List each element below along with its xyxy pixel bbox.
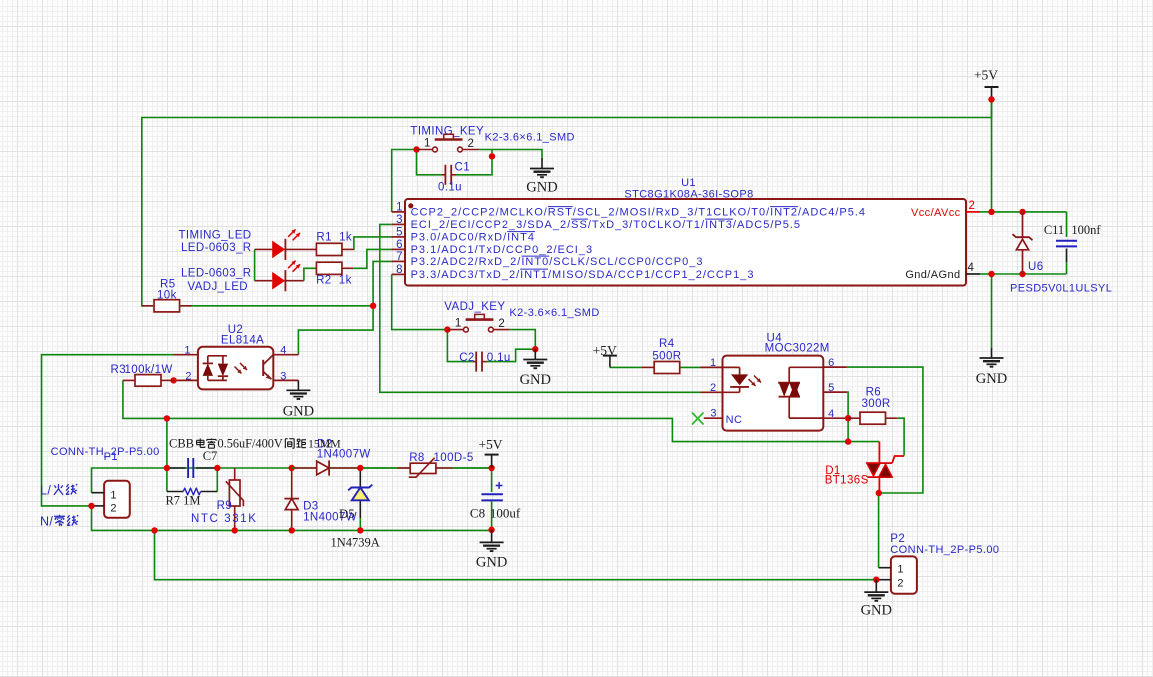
svg-text:NTC 331K: NTC 331K xyxy=(191,513,258,525)
svg-text:6: 6 xyxy=(828,357,834,369)
svg-text:EL814A: EL814A xyxy=(221,335,264,347)
svg-text:5: 5 xyxy=(828,382,834,394)
svg-text:MOC3022M: MOC3022M xyxy=(765,343,830,355)
svg-text:U6: U6 xyxy=(1028,261,1044,273)
svg-text:VADJ_KEY: VADJ_KEY xyxy=(444,301,505,313)
svg-text:4: 4 xyxy=(968,262,975,274)
svg-text:NC: NC xyxy=(726,414,743,426)
svg-text:6: 6 xyxy=(396,239,402,251)
svg-text:P3.3/ADC3/TxD_2/INT1/MISO/SDA/: P3.3/ADC3/TxD_2/INT1/MISO/SDA/CCP1/CCP1_… xyxy=(411,269,755,281)
svg-text:2: 2 xyxy=(710,382,716,394)
svg-text:C2: C2 xyxy=(459,352,475,364)
svg-text:P3.1/ADC1/TxD/CCP0_2/ECI_3: P3.1/ADC1/TxD/CCP0_2/ECI_3 xyxy=(411,244,594,256)
svg-text:3: 3 xyxy=(710,407,716,419)
svg-text:N/: N/ xyxy=(40,515,53,529)
svg-text:15MM: 15MM xyxy=(308,437,341,451)
svg-text:C11: C11 xyxy=(1044,223,1064,237)
svg-text:D5: D5 xyxy=(339,507,355,521)
svg-text:1: 1 xyxy=(424,138,430,150)
svg-text:2: 2 xyxy=(468,138,474,150)
svg-text:R8: R8 xyxy=(409,452,425,464)
svg-text:GND: GND xyxy=(976,371,1007,387)
svg-text:1: 1 xyxy=(455,318,461,330)
svg-text:C1: C1 xyxy=(455,162,471,174)
svg-text:GND: GND xyxy=(861,603,892,619)
svg-text:1: 1 xyxy=(184,345,190,357)
svg-text:2: 2 xyxy=(897,577,903,589)
svg-text:2: 2 xyxy=(498,318,504,330)
svg-text:100D-5: 100D-5 xyxy=(434,452,474,464)
svg-text:TIMING_LED: TIMING_LED xyxy=(178,230,251,242)
svg-text:R1 1k: R1 1k xyxy=(316,232,352,244)
svg-text:BT136S: BT136S xyxy=(825,475,869,487)
svg-text:TIMING_KEY: TIMING_KEY xyxy=(410,126,484,138)
svg-text:P2: P2 xyxy=(890,533,905,545)
svg-text:8: 8 xyxy=(396,264,402,276)
svg-text:GND: GND xyxy=(520,372,551,388)
svg-text:0.56uF/400V: 0.56uF/400V xyxy=(218,437,283,451)
svg-text:C7: C7 xyxy=(203,449,218,463)
svg-text:2: 2 xyxy=(110,503,116,515)
svg-text:P3.2/ADC2/RxD_2/INT0/SCLK/SCL/: P3.2/ADC2/RxD_2/INT0/SCLK/SCL/CCP0/CCP0_… xyxy=(411,256,704,268)
svg-text:CBB: CBB xyxy=(169,437,194,451)
svg-text:1: 1 xyxy=(897,564,903,576)
svg-text:K2-3.6×6.1_SMD: K2-3.6×6.1_SMD xyxy=(509,307,599,319)
svg-text:PESD5V0L1ULSYL: PESD5V0L1ULSYL xyxy=(1010,283,1112,295)
svg-text:GND: GND xyxy=(476,554,507,570)
svg-text:K2-3.6×6.1_SMD: K2-3.6×6.1_SMD xyxy=(485,131,575,143)
svg-text:GND: GND xyxy=(283,403,314,419)
svg-text:4: 4 xyxy=(828,408,834,420)
svg-text:300R: 300R xyxy=(862,398,891,410)
svg-text:CCP2_2/CCP2/MCLKO/RST/SCL_2/MO: CCP2_2/CCP2/MCLKO/RST/SCL_2/MOSI/RxD_3/T… xyxy=(411,207,866,219)
svg-text:5: 5 xyxy=(396,226,402,238)
svg-text:3: 3 xyxy=(280,371,286,383)
svg-text:0.1u: 0.1u xyxy=(438,182,462,194)
svg-text:+5V: +5V xyxy=(478,437,502,452)
svg-text:L/: L/ xyxy=(40,484,51,498)
svg-text:Gnd/AGnd: Gnd/AGnd xyxy=(905,269,960,281)
svg-text:1N4739A: 1N4739A xyxy=(331,536,380,550)
svg-text:P3.0/ADC0/RxD/INT4: P3.0/ADC0/RxD/INT4 xyxy=(411,232,535,244)
svg-text:LED-0603_R: LED-0603_R xyxy=(181,242,251,254)
svg-text:2: 2 xyxy=(969,200,975,212)
svg-text:4: 4 xyxy=(280,345,286,357)
svg-text:1: 1 xyxy=(110,490,116,502)
svg-text:P1: P1 xyxy=(104,451,118,463)
svg-text:ECI_2/ECI/CCP2_3/SDA_2/SS/TxD_: ECI_2/ECI/CCP2_3/SDA_2/SS/TxD_3/T0CLKO/T… xyxy=(411,219,801,231)
svg-text:VADJ_LED: VADJ_LED xyxy=(187,281,248,293)
svg-text:Vcc/AVcc: Vcc/AVcc xyxy=(911,207,961,219)
svg-text:1: 1 xyxy=(710,357,716,369)
svg-text:0.1u: 0.1u xyxy=(487,352,511,364)
svg-text:STC8G1K08A-36I-SOP8: STC8G1K08A-36I-SOP8 xyxy=(624,189,753,201)
svg-text:LED-0603_R: LED-0603_R xyxy=(181,268,251,280)
svg-text:100nf: 100nf xyxy=(1071,223,1101,237)
svg-text:100uf: 100uf xyxy=(490,506,521,521)
svg-text:+5V: +5V xyxy=(974,68,998,83)
svg-text:U1: U1 xyxy=(681,177,696,189)
svg-text:GND: GND xyxy=(526,180,557,196)
svg-text:2: 2 xyxy=(185,371,191,383)
svg-text:C8: C8 xyxy=(470,506,485,521)
svg-text:3: 3 xyxy=(396,214,402,226)
svg-text:R6: R6 xyxy=(866,386,882,398)
svg-text:1: 1 xyxy=(396,201,402,213)
svg-text:R9: R9 xyxy=(217,500,233,512)
svg-text:CONN-TH_2P-P5.00: CONN-TH_2P-P5.00 xyxy=(890,544,999,556)
svg-text:7: 7 xyxy=(396,251,402,263)
svg-text:R4: R4 xyxy=(659,338,675,350)
svg-text:R7 1M: R7 1M xyxy=(165,494,200,508)
svg-text:R2 1k: R2 1k xyxy=(316,275,352,287)
